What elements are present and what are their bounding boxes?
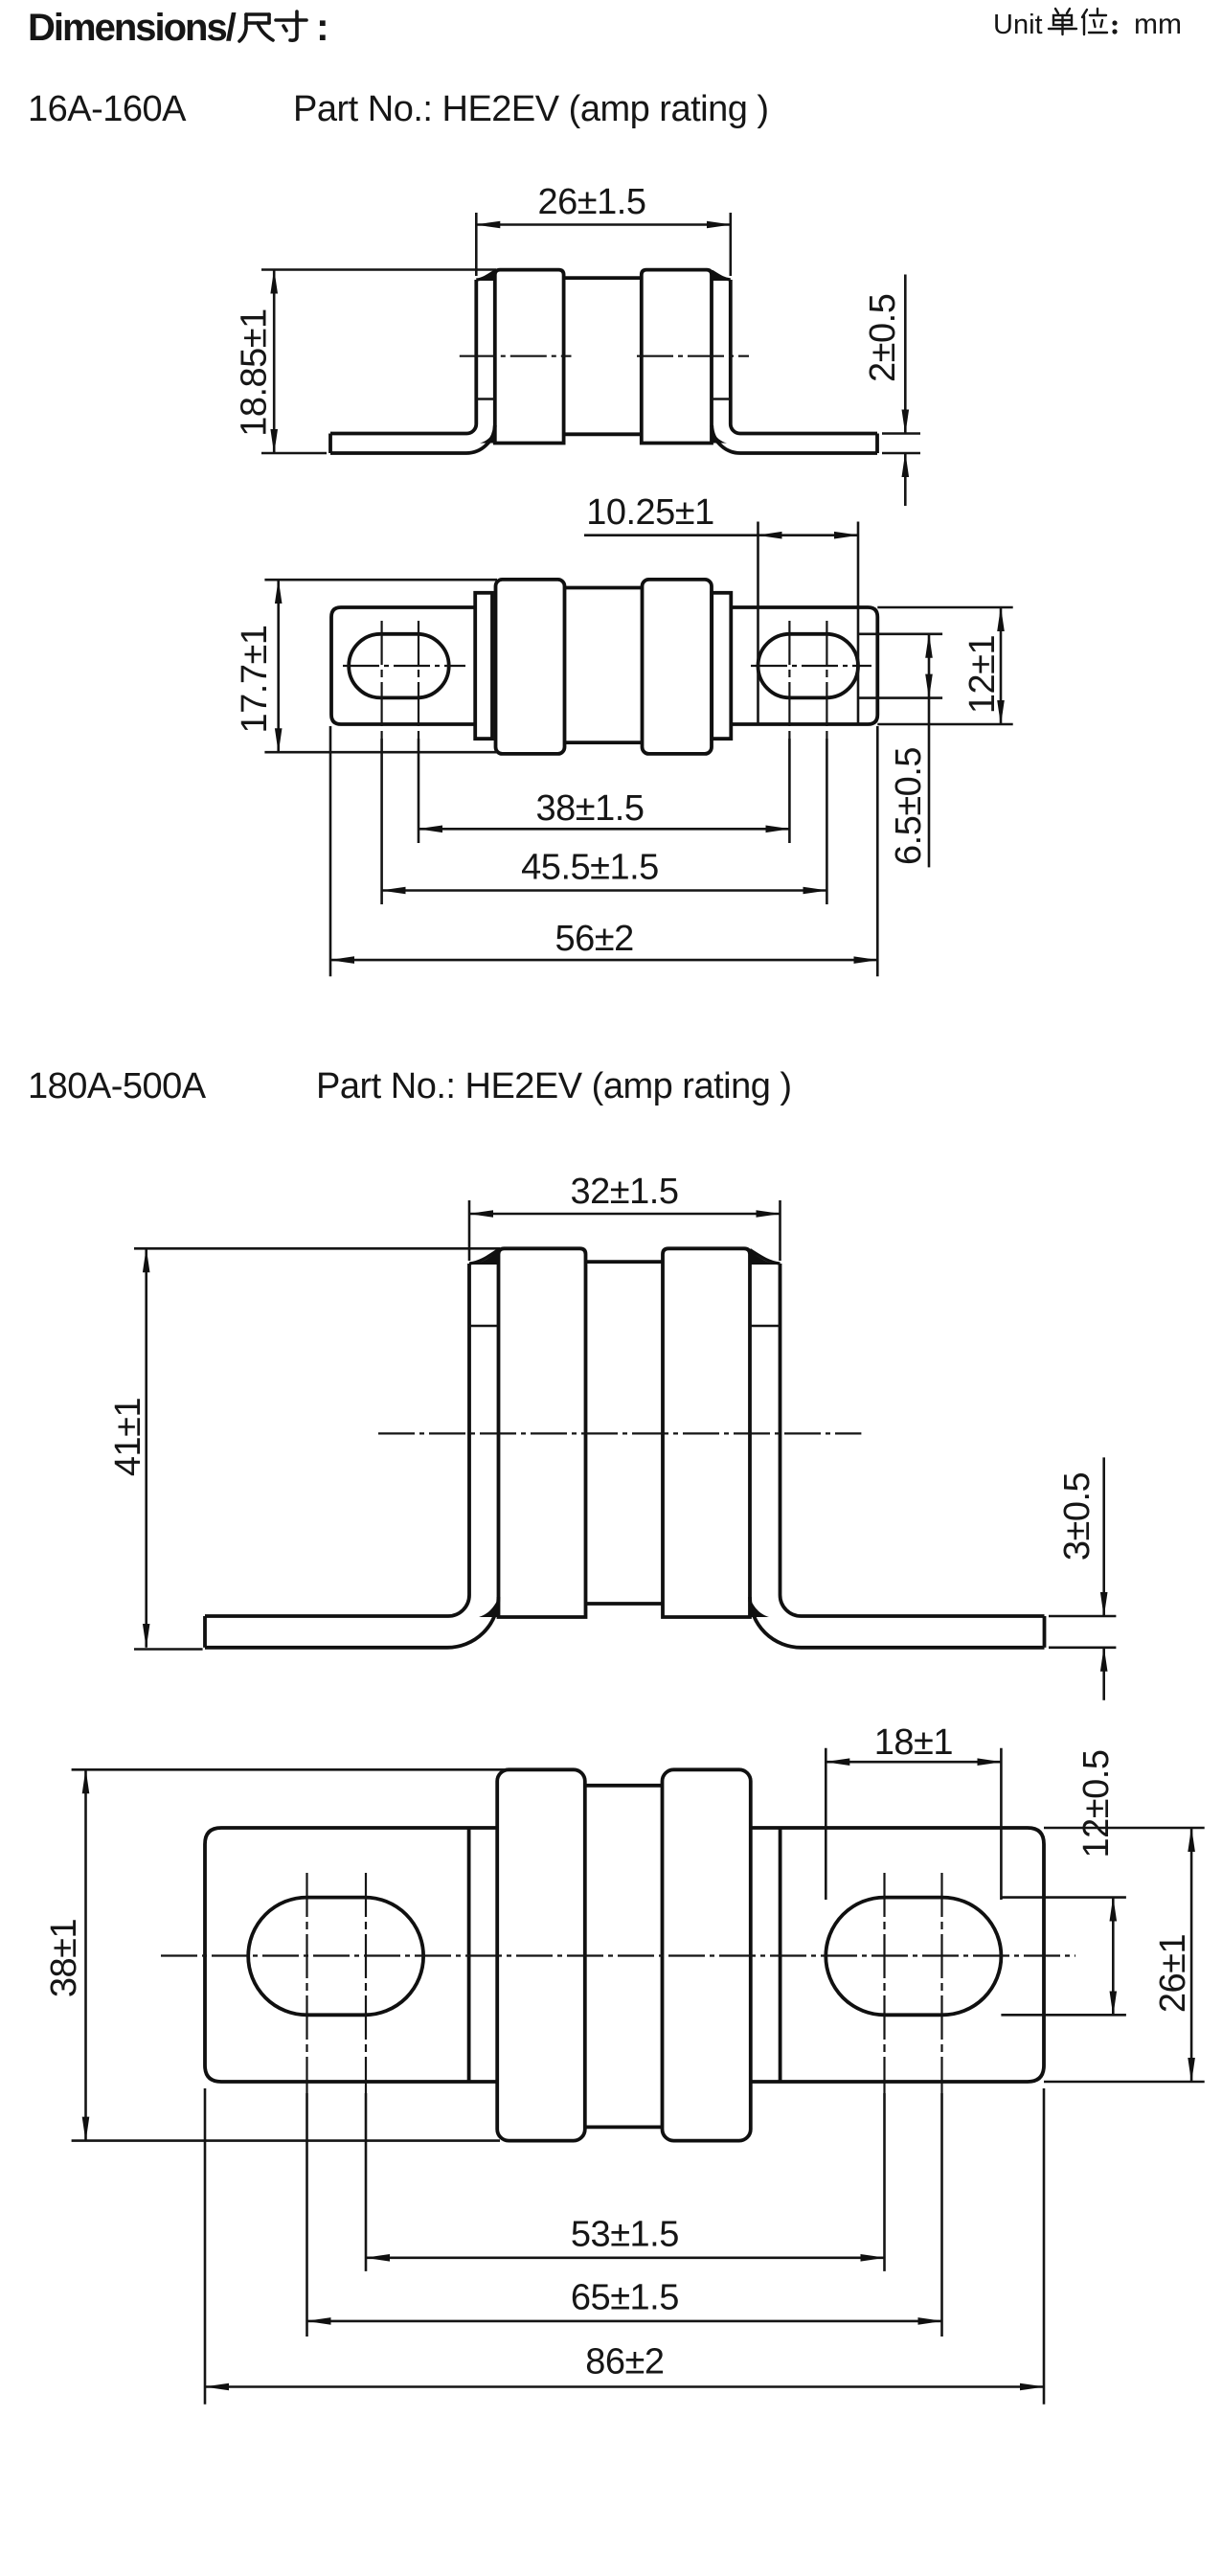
svg-text:53±1.5: 53±1.5 [571,2215,679,2255]
svg-text:16A-160A: 16A-160A [28,89,187,129]
svg-text:3±0.5: 3±0.5 [1057,1472,1098,1561]
D3 right end cap block [663,1248,750,1617]
D2 right cap [643,580,713,754]
svg-text:18.85±1: 18.85±1 [235,308,275,437]
D3 left terminal step [469,1325,499,1328]
D3 dim 32 [468,1200,471,1261]
D2 terminal plate left part [331,607,475,724]
svg-text:12±1: 12±1 [962,635,1003,714]
svg-text:6.5±0.5: 6.5±0.5 [889,747,929,865]
D4 terminal plate left part [205,1828,497,2082]
D4 barrel bottom [585,2125,663,2129]
D2 terminal plate right part [731,607,877,724]
D1 dim 2 [882,432,920,435]
D4 centerline [161,1954,1075,1956]
D3 barrel bottom [586,1602,664,1606]
svg-text:17.7±1: 17.7±1 [235,626,275,734]
D2 bolt centerlines [381,621,383,739]
svg-text:Part No.: HE2EV (amp rating ): Part No.: HE2EV (amp rating ) [316,1066,792,1106]
D2 dim 17.7 [264,579,497,581]
CJK char cun (寸) [276,11,306,40]
D2 dim 38 [419,828,789,831]
svg-text:45.5±1.5: 45.5±1.5 [521,848,659,888]
D1 centerline right [637,355,749,357]
D1 right end cap block [642,270,712,444]
D2 barrel bottom [565,741,643,744]
D3 right terminal leg [781,1264,1045,1616]
D1 right terminal step [712,398,731,400]
D4 dim 26 [1044,1827,1205,1830]
D2 dim 45.5 [382,889,827,892]
svg-text:Part No.: HE2EV (amp rating ): Part No.: HE2EV (amp rating ) [293,89,769,129]
D2 right flange [712,593,731,739]
D4 dim 18 [825,1748,827,1900]
D4 dim 53 [366,2257,885,2260]
D2 dim 10.25 [757,522,759,725]
D1 middle barrel bottom [564,432,642,436]
D1 left end cap block [495,270,564,444]
D1 left terminal step [476,398,495,400]
D2 left cap [496,580,565,754]
D4 dim 65 [307,2320,942,2323]
svg-text::: : [316,5,329,49]
svg-text:Dimensions/: Dimensions/ [28,7,237,49]
CJK char dan (单) [1049,9,1076,34]
CJK char chi (尺) [239,14,273,41]
D1 right terminal leg [731,280,877,434]
svg-text:86±2: 86±2 [585,2342,664,2382]
D4 right cap [663,1769,751,2140]
D2 right slot hole [758,634,859,698]
D3 dim 3 [1049,1615,1116,1618]
svg-text:180A-500A: 180A-500A [28,1066,207,1106]
D4 right flange edge [779,1828,782,2082]
svg-text:65±1.5: 65±1.5 [571,2278,679,2318]
D1 top extension line [261,268,496,271]
D3 left terminal leg [205,1264,469,1616]
D3 left end cap block [499,1248,586,1617]
D4 right slot hole [826,1898,1001,2016]
D2 left slot hole [349,634,449,698]
svg-text:mm: mm [1134,9,1182,40]
D4 fuse 180A top view [44,1722,1205,2405]
D3 fuse 180A side view [108,1172,1116,1700]
CJK char wei (位) [1082,9,1107,34]
D2 left flange [475,593,492,739]
D4 left cap [497,1769,585,2140]
svg-text:26±1: 26±1 [1153,1934,1193,2013]
D4 left flange edge [467,1828,471,2082]
D4 terminal plate right part [751,1828,1044,2082]
D4 bolt centerlines [305,1873,307,2093]
D3 top extension line [134,1247,500,1250]
D1 centerline left [460,355,572,357]
D3 dim 41 [134,1648,203,1651]
D2 centerline right [751,665,871,667]
D3 centerline [378,1432,861,1434]
D2 dim 12 [877,606,1012,609]
D4 dim 38 [72,1768,505,1771]
D4 dim 86 [204,2088,207,2405]
svg-text:41±1: 41±1 [108,1398,148,1476]
svg-text:38±1.5: 38±1.5 [536,788,645,829]
svg-text:12±0.5: 12±0.5 [1076,1750,1117,1858]
svg-text:26±1.5: 26±1.5 [538,182,646,222]
svg-text:56±2: 56±2 [554,919,633,959]
D1 left terminal leg [330,280,476,434]
svg-text:38±1: 38±1 [44,1919,84,1997]
svg-text:Unit: Unit [993,10,1043,40]
D4 dim 12 [1001,1896,1126,1899]
svg-text:2±0.5: 2±0.5 [863,294,903,382]
D4 barrel top [585,1784,663,1788]
D2 barrel top [565,586,643,590]
svg-text:18±1: 18±1 [874,1722,953,1763]
D2 centerline left [343,665,465,667]
D2 dim 6.5 [858,632,942,635]
D2 fuse 16A top view [235,492,1013,976]
svg-text:32±1.5: 32±1.5 [571,1172,679,1212]
D1 dim 18.85 [261,452,327,455]
svg-text:10.25±1: 10.25±1 [586,492,714,533]
D1 middle barrel top [564,276,642,280]
D1 fuse 16A side view [235,182,921,506]
D3 barrel top [586,1260,664,1264]
D2 dim 56 [329,726,332,976]
D4 left slot hole [248,1898,423,2016]
D3 right terminal step [750,1325,781,1328]
D1 dim 26 line [476,223,731,226]
D1 dim 26 extensions [475,213,478,276]
